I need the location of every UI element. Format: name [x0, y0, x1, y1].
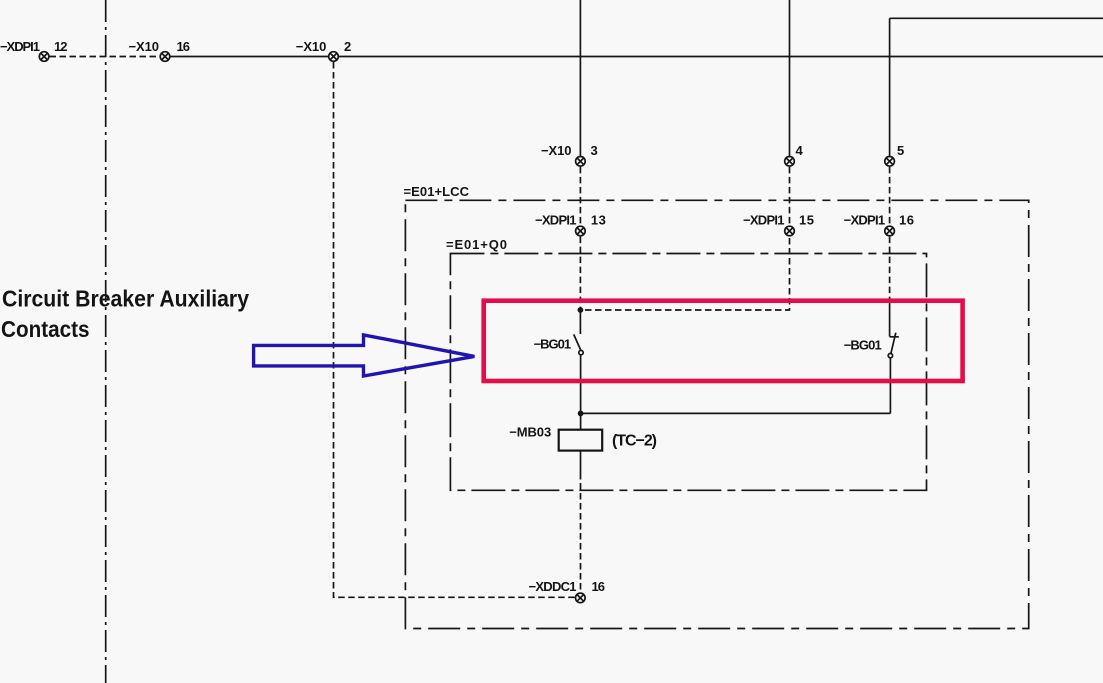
enclosure =E01+LCC dash-dot box: [405, 200, 1028, 628]
wire dashed -XDPI1:13 down to node A: [579, 237, 581, 308]
svg-text:−X10: −X10: [296, 39, 327, 54]
wire dashed -X10:4 to -XDPI1:15: [789, 167, 791, 226]
terminal -X10:3: [576, 157, 586, 167]
wire solid left contact down to node B: [580, 355, 582, 414]
terminal -X10:2: [329, 52, 339, 62]
svg-text:−BG01: −BG01: [534, 337, 572, 352]
contact -BG01 left contact circle: [579, 350, 583, 354]
svg-text:−X10: −X10: [541, 143, 572, 158]
contact -BG01 right blade: [891, 333, 896, 354]
wire solid from -X10:16 to -X10:2: [170, 56, 328, 58]
svg-text:=E01+Q0: =E01+Q0: [446, 237, 507, 252]
terminal -X10:4: [785, 157, 795, 167]
contact -BG01 left (NO) blade: [574, 334, 581, 350]
terminal -X10:16: [160, 52, 170, 62]
wire dashed from -XDPI1:12 to -X10:16: [50, 56, 160, 58]
wire vertical into -X10:3: [579, 0, 581, 156]
terminal -XDPI1:12: [39, 52, 49, 62]
enclosure =E01+Q0 dash-dot box: [450, 254, 926, 491]
svg-text:−XDDC1: −XDDC1: [529, 579, 577, 594]
annotation heading text: [1, 286, 249, 343]
svg-text:−X10: −X10: [129, 39, 160, 54]
wire solid right contact down: [889, 358, 891, 414]
contact -BG01 right (NC) T-bar: [890, 336, 899, 338]
terminal -X10:5: [885, 157, 895, 167]
wire solid node A to left contact: [579, 310, 581, 334]
svg-text:4: 4: [796, 143, 804, 158]
svg-text:−XDPI1: −XDPI1: [844, 212, 886, 227]
wire solid horizontal to node B: [581, 412, 891, 414]
wire dashed from -X10:2 down and right to -XDDC1:16: [334, 62, 575, 597]
svg-text:=E01+LCC: =E01+LCC: [404, 184, 470, 199]
wire dashed -X10:3 to -XDPI1:13: [579, 167, 581, 226]
terminal -XDPI1:15: [785, 226, 795, 236]
red highlight rectangle: [484, 301, 963, 381]
svg-text:16: 16: [592, 579, 606, 594]
terminal -XDPI1:13: [576, 226, 586, 236]
svg-text:2: 2: [344, 39, 351, 54]
svg-text:(TC−2): (TC−2): [612, 433, 657, 450]
annotation blue arrow: [254, 335, 475, 376]
svg-text:Contacts: Contacts: [1, 316, 90, 342]
svg-text:−XDPI1: −XDPI1: [535, 212, 577, 227]
wire solid into right contact: [889, 301, 891, 337]
svg-text:−MB03: −MB03: [509, 425, 551, 440]
wire solid below coil: [580, 451, 582, 473]
svg-text:5: 5: [897, 143, 904, 158]
svg-text:3: 3: [591, 143, 598, 158]
svg-text:16: 16: [899, 212, 914, 227]
wire node B to coil: [580, 413, 582, 429]
section divider dash-dot line: [105, 0, 107, 683]
wire vertical into -X10:4: [789, 0, 791, 156]
svg-text:−XDPI1: −XDPI1: [743, 212, 785, 227]
node B junction dot: [578, 411, 584, 417]
node A junction dot: [578, 307, 584, 313]
coil -MB03: [559, 430, 603, 451]
wire solid from -X10:2 to right edge: [339, 56, 1103, 58]
wire dashed -X10:5 to -XDPI1:16: [889, 167, 891, 226]
terminal -XDPI1:16: [885, 226, 895, 236]
wire vertical into -X10:5: [889, 18, 891, 156]
svg-text:−BG01: −BG01: [844, 337, 882, 352]
terminal -XDDC1:16: [576, 593, 586, 603]
svg-text:Circuit Breaker Auxiliary: Circuit Breaker Auxiliary: [2, 286, 249, 312]
wire top-right horizontal at y=18: [890, 17, 1103, 19]
svg-text:15: 15: [799, 212, 814, 227]
svg-text:−XDPI1: −XDPI1: [0, 39, 40, 54]
svg-text:12: 12: [54, 39, 68, 54]
wire dashed -XDPI1:16 down: [889, 237, 891, 301]
svg-text:16: 16: [177, 39, 191, 54]
wire dashed down to -XDDC1:16: [580, 473, 582, 592]
svg-text:13: 13: [591, 212, 606, 227]
wire dashed node A right and up to -XDPI1:15: [585, 237, 790, 310]
contact -BG01 right contact circle: [888, 353, 892, 357]
